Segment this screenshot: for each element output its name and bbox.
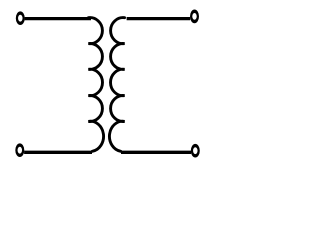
wire top-right: [127, 17, 191, 20]
wire top-left: [25, 17, 91, 20]
transformer schematic: two coupled inductors with open terminals: [0, 0, 222, 165]
terminal TR: [191, 11, 198, 21]
inductor L1 (left winding, humps bulge right): [88, 18, 103, 152]
terminal BL: [16, 145, 23, 155]
wire bottom-right: [121, 151, 191, 154]
inductor L2 (right winding, humps bulge left): [109, 18, 124, 152]
terminal BR: [192, 146, 199, 156]
terminal TL: [17, 13, 24, 23]
wire bottom-left: [24, 151, 92, 154]
